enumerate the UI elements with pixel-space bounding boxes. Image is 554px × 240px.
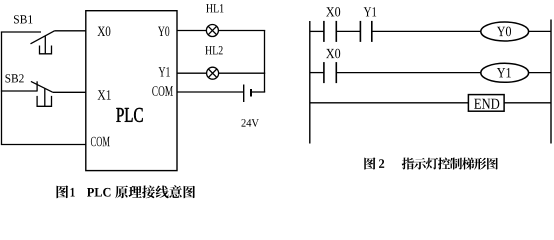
lamp HL1 <box>206 25 218 37</box>
pin label COM (left) <box>91 137 110 147</box>
END block <box>468 95 504 112</box>
pin label Y0 <box>158 27 169 37</box>
battery value 24V <box>242 119 259 127</box>
rung1 contact X0 <box>324 21 336 42</box>
lamp HL1 label <box>206 4 223 12</box>
wire HL1 to right bus <box>218 30 265 32</box>
wire battery to right bus <box>251 91 265 93</box>
PLC label <box>116 108 142 122</box>
pin label X0 <box>98 27 111 37</box>
rung2 contact X0 label <box>326 49 340 58</box>
caption 图2 指示灯控制梯形图 <box>364 157 498 169</box>
ladder left power rail <box>309 21 311 144</box>
left bus wire <box>1 32 3 145</box>
rung1 wire segments <box>310 30 551 32</box>
END label <box>474 99 499 109</box>
wire Y0 to HL1 <box>177 30 206 32</box>
pin label COM (right) <box>152 86 173 96</box>
right bus wire (lamp circuit) <box>264 31 266 93</box>
rung2 contact X0 <box>324 62 336 83</box>
caption figure 2 number <box>379 159 384 168</box>
rung1 contact X0 label <box>326 7 340 16</box>
caption 图1 PLC原理接线意图 <box>57 185 196 198</box>
lamp HL2 label <box>205 46 222 54</box>
coil Y0 <box>481 22 529 41</box>
pin label Y1 <box>159 67 170 76</box>
lamp HL2 <box>207 67 219 79</box>
pin label X1 <box>98 90 111 99</box>
coil Y1 label <box>497 68 511 77</box>
wire HL2 to right bus <box>219 72 266 74</box>
coil Y1 <box>481 63 529 82</box>
wire bottom to COM <box>1 144 86 146</box>
rung2 wire segments <box>310 72 551 74</box>
wire COM to battery <box>177 91 244 93</box>
wire Y1 to HL2 <box>177 72 207 74</box>
pushbutton SB2 <box>1 81 86 106</box>
pushbutton SB1 <box>1 31 86 54</box>
PLC box U1 <box>86 11 177 171</box>
caption PLC latin <box>87 188 111 197</box>
rung1 contact Y1 label <box>364 7 377 16</box>
caption figure 1 number <box>71 188 75 197</box>
pushbutton SB1 label <box>14 15 33 23</box>
pushbutton SB2 label <box>6 74 24 82</box>
rung1 contact Y1 <box>360 21 371 42</box>
ladder right power rail <box>550 20 552 144</box>
battery BT1 24V plates <box>244 85 251 103</box>
coil Y0 label <box>497 27 511 37</box>
rung3 wire segments <box>310 102 551 104</box>
